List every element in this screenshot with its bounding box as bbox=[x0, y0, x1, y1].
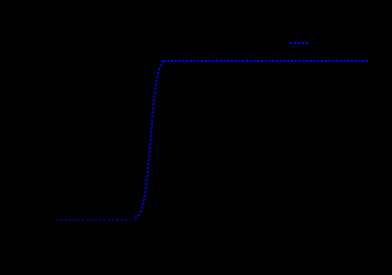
curve: upper flat segment bbox=[163, 60, 368, 62]
curve: steep transition segment bbox=[135, 61, 165, 218]
legend sample line bbox=[290, 42, 310, 44]
curve: lower flat segment (dim) bbox=[56, 219, 135, 221]
